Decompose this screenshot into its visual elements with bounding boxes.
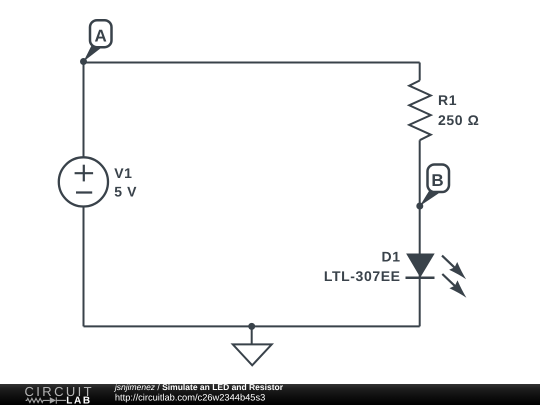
svg-text:B: B	[431, 171, 443, 190]
svg-text:A: A	[95, 26, 107, 45]
svg-text:D1: D1	[381, 249, 400, 265]
svg-text:http://circuitlab.com/c26w2344: http://circuitlab.com/c26w2344b45s3	[115, 393, 265, 403]
svg-text:R1: R1	[438, 92, 457, 108]
svg-text:jsnjimenez / Simulate an LED a: jsnjimenez / Simulate an LED and Resisto…	[114, 382, 284, 392]
svg-text:LTL-307EE: LTL-307EE	[324, 268, 401, 284]
svg-text:V1: V1	[114, 165, 132, 181]
svg-text:250 Ω: 250 Ω	[438, 112, 479, 128]
svg-text:LAB: LAB	[66, 395, 92, 405]
svg-text:5 V: 5 V	[114, 183, 137, 199]
